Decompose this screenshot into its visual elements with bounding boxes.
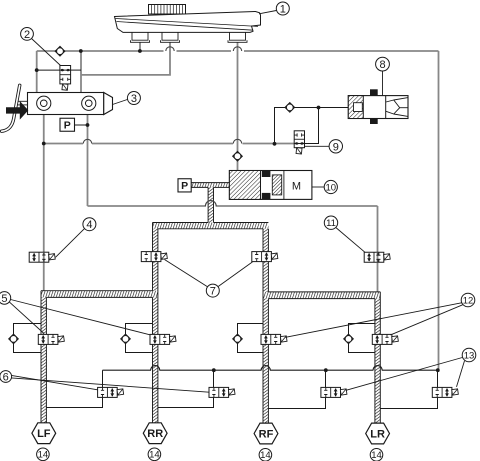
wire valve2 left port line [37,69,60,71]
wire hop over pump feed [233,139,241,143]
callout 13 [346,358,462,391]
wire manifold hop over RR pipe [151,366,160,371]
svg-text:14: 14 [149,450,160,461]
callout 14 (LF) [37,448,50,461]
wire thick pipe to LF wheel [41,297,46,423]
callout 1 [259,11,276,14]
wire LF check-valve bypass loop [14,324,42,353]
wire reservoir port1 drop [139,42,141,51]
wire return manifold seg1 [103,369,152,371]
svg-text:14: 14 [260,450,271,461]
wire thick pipe to RR wheel [153,229,158,424]
wheel RR [143,423,167,444]
svg-text:4: 4 [86,219,92,231]
wire reservoir port2 drop to x=81 [81,42,170,75]
valve 4 (proportioning solenoid, LF/RR) [29,252,49,262]
valve 9 (pressure control solenoid valve) [294,131,304,148]
callout 3 [113,100,128,105]
inlet solenoid valve 5 (RR) [150,334,170,344]
check valve bypass LR [344,334,353,343]
outlet solenoid valve 13 (LR) [432,387,452,397]
svg-text:13: 13 [464,350,475,361]
wire master cylinder secondary output down [87,115,89,207]
wire thick pipe to LR wheel [375,299,380,424]
wire return manifold seg3 [270,369,374,371]
callout 11 [336,228,365,253]
outlet solenoid valve 6 (LF) [98,387,118,397]
wire reservoir supply line y=51 mid segment [177,50,232,52]
junction reservoir port1 [138,49,142,53]
inlet solenoid valve 5 (LF) [38,334,58,344]
junction reservoir line / valve2 branch [79,49,83,53]
wire x=81 down to master cylinder [80,51,82,93]
wire hop over port2 line [166,47,174,51]
wire leader callout8 vertical [382,71,384,96]
wire thick pump output drop pipe [208,187,213,222]
svg-text:P: P [181,180,188,192]
wire manifold hop over LR pipe [373,366,382,371]
junction primary line / accumulator branch [42,142,46,146]
outlet solenoid valve 6 (RR) [209,387,229,397]
master cylinder 3 [28,93,113,115]
wire x=36.7 down to master cylinder [36,51,38,93]
check valve bypass LF [9,334,18,343]
wire thick bar to LR branch [263,292,380,299]
callout 12 [286,303,462,338]
wire thick pipe to RF wheel [263,229,268,424]
callout 8 [376,57,390,71]
wire RF outlet valve connections [268,370,325,408]
pressure gauge P (pump) [178,179,191,192]
wire return manifold seg2 [159,369,261,371]
wire hop over secondary drop [83,139,91,143]
wire thick pump pressure line to P gauge [191,183,229,188]
inlet solenoid valve 12 (LR) [372,334,392,344]
valve 11 (proportioning solenoid, RF/LR) [364,252,384,262]
wire manifold hop over RF pipe [261,366,270,371]
wire RR outlet valve connections [158,370,214,407]
callout 9 [305,145,330,147]
wire P gauge link at master cylinder [75,124,88,126]
wire secondary line y=206 left of pipe [88,205,207,207]
wire hop over port3 line [233,47,241,51]
accumulator 8 [348,89,408,124]
wire valve9 bypass to accumulator [275,108,349,144]
outlet solenoid valve 13 (RF) [321,387,341,397]
svg-text:2: 2 [24,29,30,41]
reservoir 1 (brake fluid reservoir) [115,5,261,43]
svg-text:LR: LR [370,428,385,440]
wheel RF [254,423,278,444]
wire LR check-valve bypass loop [349,324,375,353]
check valve bypass RF [233,334,242,343]
callout 2 [32,39,61,66]
junction manifold RR [212,368,216,372]
wire master cylinder primary output down through valve4 [43,115,45,291]
wire valve2 right port line [71,69,81,71]
wire RR check-valve bypass loop [126,324,153,353]
wire RF check-valve bypass loop [238,324,264,353]
svg-text:10: 10 [326,182,337,193]
svg-text:14: 14 [371,450,382,461]
svg-text:8: 8 [379,59,385,71]
valve 7 right (cut solenoid valve) [252,252,272,262]
svg-text:M: M [292,180,301,192]
callout 4 [56,229,85,258]
wire x=377.5 down through valve11 to LR bar [377,206,379,292]
junction valve2 left branch [35,68,39,72]
check valve bypass RR [121,334,130,343]
wire reservoir supply line y=51 left segment [37,50,164,52]
wire return trunk x=438.5 [438,51,440,370]
svg-text:3: 3 [131,93,137,105]
junction accumulator line / valve9 outlet [317,106,321,110]
wire secondary line y=206 right of pipe [216,205,378,207]
check valve on pump suction [233,152,242,161]
svg-text:14: 14 [38,450,49,461]
wire thick pipe outlines [191,182,229,184]
svg-text:RF: RF [259,428,274,440]
wire accumulator branch y=143.5 seg3 to valve9 [243,143,295,145]
callout 7 [165,260,208,287]
wheel LF [32,423,56,444]
brake pedal with apply arrow [2,85,29,131]
check valve to accumulator [285,103,294,112]
check valve on reservoir supply line [55,47,64,56]
callout 14 (LR) [370,449,383,461]
wire valve9 outlet up to accumulator line [305,108,319,144]
callout 14 (RR) [148,448,161,461]
wire LR outlet valve connections [380,370,437,408]
junction accumulator branch / bypass [273,142,277,146]
junction manifold RF [324,368,328,372]
svg-text:6: 6 [3,371,9,383]
svg-text:12: 12 [463,295,474,306]
wire thick distribution bar upper [153,223,269,229]
callout 10 [312,186,324,188]
pressure gauge P (master cylinder) [60,118,75,131]
callout 6 [11,375,97,389]
svg-text:7: 7 [210,286,216,298]
wire thick bar to LF branch [41,291,158,298]
svg-text:9: 9 [333,141,339,153]
svg-text:1: 1 [280,3,286,15]
svg-text:5: 5 [1,293,7,305]
junction P gauge tap [86,123,90,127]
svg-text:LF: LF [37,428,51,440]
callout 14 (RF) [259,449,272,461]
wire hop over pump drop pipe [205,201,216,206]
svg-text:P: P [64,120,71,132]
wire LF outlet valve connections [46,370,102,407]
svg-text:RR: RR [147,428,163,440]
wire accumulator branch y=143.5 seg2 [92,143,233,145]
wire reservoir port3 drop to pump [237,42,239,170]
wire reservoir supply line y=51 right segment [244,50,439,52]
inlet solenoid valve 12 (RF) [261,334,281,344]
junction manifold trunk [436,368,440,372]
callout 5 [9,302,44,334]
pump and motor 10 [229,171,312,200]
wheel LR [366,423,390,444]
wire accumulator branch y=143.5 seg1 [44,143,83,145]
valve 7 left (cut solenoid valve) [141,252,161,262]
svg-text:11: 11 [326,218,336,229]
valve 2 (two-position solenoid valve) [60,66,71,84]
wire return manifold seg4 [382,369,439,371]
